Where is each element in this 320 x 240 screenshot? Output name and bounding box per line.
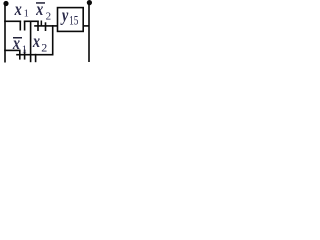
svg-text:y: y (60, 4, 69, 25)
wire mid riser / contact x2 plate 1 (30, 21, 32, 63)
contact xbar1 plate 2 (24, 50, 26, 60)
contact x1 plate 2 (24, 21, 26, 31)
node A (left pole dot) (3, 1, 8, 6)
contact xbar1 plate 1 (19, 50, 21, 60)
contact x2 plate 2 (35, 54, 37, 62)
contact xbar2 plate 1 (37, 21, 39, 32)
svg-text:x: x (14, 0, 22, 20)
contact xbar2 plate 2 (41, 21, 43, 27)
wire x1 to junction (24, 21, 39, 23)
wire box to right rail (83, 25, 89, 27)
wire left rail (4, 5, 6, 63)
label xbar2 overbar (36, 2, 45, 4)
wire right rail (88, 4, 90, 62)
wire crossbar xbar2 to box (34, 25, 58, 27)
contact x1 plate 1 (20, 21, 22, 31)
wire x2 to riser (35, 54, 54, 56)
contact xbar2 break bar (45, 22, 47, 31)
svg-text:1: 1 (22, 44, 27, 55)
wire crossbar xbar1 to x2 (16, 54, 36, 56)
wire right riser (52, 25, 54, 55)
svg-text:x: x (32, 31, 40, 52)
label xbar1 overbar (13, 37, 22, 39)
svg-text:15: 15 (69, 14, 79, 27)
svg-text:1: 1 (24, 9, 29, 20)
relay coil box y15 (58, 8, 84, 32)
svg-text:x: x (35, 0, 43, 20)
node B (right pole dot) (87, 0, 92, 5)
wire bottom branch in (4, 50, 20, 52)
wire top branch in (4, 21, 21, 23)
svg-text:x: x (12, 33, 20, 54)
svg-text:2: 2 (41, 40, 47, 54)
svg-text:2: 2 (46, 10, 52, 22)
